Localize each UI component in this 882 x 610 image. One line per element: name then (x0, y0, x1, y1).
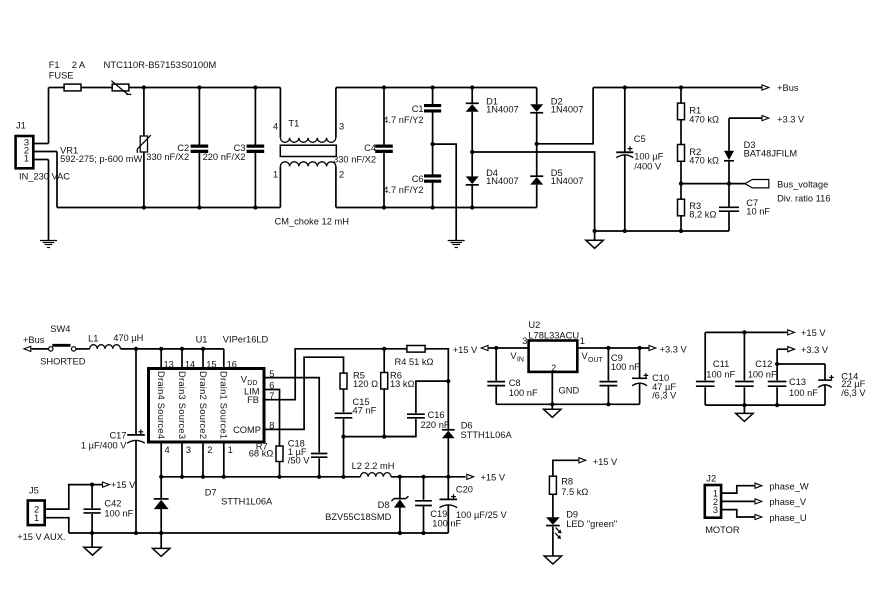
svg-text:L78L33ACU: L78L33ACU (528, 330, 579, 340)
svg-text:+Bus: +Bus (777, 83, 799, 93)
svg-text:4: 4 (165, 445, 170, 455)
svg-text:3: 3 (713, 505, 718, 515)
svg-text:100 µF/25 V: 100 µF/25 V (456, 510, 508, 520)
svg-text:C6: C6 (412, 174, 424, 184)
svg-text:13: 13 (164, 360, 174, 370)
svg-text:MOTOR: MOTOR (705, 525, 740, 535)
svg-text:+15 V: +15 V (481, 473, 506, 483)
svg-text:D7: D7 (205, 487, 217, 497)
svg-text:10 nF: 10 nF (746, 207, 770, 217)
svg-text:1: 1 (228, 445, 233, 455)
svg-text:100 nF: 100 nF (432, 519, 461, 529)
svg-text:/6,3 V: /6,3 V (652, 391, 677, 401)
svg-text:J1: J1 (16, 121, 26, 131)
svg-text:D8: D8 (378, 500, 390, 510)
svg-text:R4 51 kΩ: R4 51 kΩ (395, 357, 434, 367)
svg-text:1N4007: 1N4007 (551, 105, 584, 115)
svg-text:D9: D9 (566, 509, 578, 519)
svg-text:+Bus: +Bus (23, 335, 45, 345)
svg-text:2 A: 2 A (72, 60, 86, 70)
svg-text:OUT: OUT (588, 357, 604, 364)
svg-text:3: 3 (522, 336, 527, 346)
svg-text:100 nF: 100 nF (611, 362, 640, 372)
svg-text:U2: U2 (528, 320, 540, 330)
svg-text:IN_230 VAC: IN_230 VAC (19, 172, 70, 182)
svg-text:/50 V: /50 V (288, 456, 311, 466)
svg-text:330 nF/X2: 330 nF/X2 (333, 155, 376, 165)
svg-text:100 nF: 100 nF (706, 369, 735, 379)
svg-text:C11: C11 (713, 359, 729, 369)
svg-text:FUSE: FUSE (49, 71, 74, 81)
svg-text:C1: C1 (412, 104, 424, 114)
svg-text:CM_choke 12 mH: CM_choke 12 mH (275, 216, 349, 226)
svg-text:8,2 kΩ: 8,2 kΩ (689, 210, 716, 220)
svg-text:3: 3 (186, 445, 191, 455)
svg-text:Drain2 Source2: Drain2 Source2 (198, 371, 208, 439)
svg-text:1: 1 (273, 170, 278, 180)
svg-text:4.7 nF/Y2: 4.7 nF/Y2 (383, 115, 423, 125)
svg-text:C16: C16 (428, 410, 445, 420)
svg-text:13 kΩ: 13 kΩ (390, 379, 415, 389)
svg-text:LED "green": LED "green" (566, 519, 617, 529)
svg-text:+15 V: +15 V (453, 345, 478, 355)
svg-text:1N4007: 1N4007 (551, 176, 584, 186)
svg-text:47 nF: 47 nF (353, 405, 377, 415)
svg-text:330 nF/X2: 330 nF/X2 (146, 152, 189, 162)
svg-text:C12: C12 (755, 359, 772, 369)
svg-text:IN: IN (517, 356, 524, 363)
svg-text:J5: J5 (29, 485, 39, 495)
svg-text:SHORTED: SHORTED (40, 357, 86, 367)
svg-text:R8: R8 (561, 477, 573, 487)
svg-text:C17: C17 (109, 430, 126, 440)
svg-text:14: 14 (185, 360, 195, 370)
svg-text:220 nF/X2: 220 nF/X2 (203, 152, 246, 162)
svg-text:470 µH: 470 µH (113, 333, 143, 343)
svg-text:COMP: COMP (233, 425, 261, 435)
svg-text:100 nF: 100 nF (748, 369, 777, 379)
svg-text:GND: GND (559, 386, 580, 396)
svg-text:phase_U: phase_U (769, 513, 806, 523)
svg-text:2: 2 (551, 363, 556, 373)
svg-text:100 nF: 100 nF (104, 508, 133, 518)
svg-text:C42: C42 (104, 499, 121, 509)
svg-text:2: 2 (207, 445, 212, 455)
svg-text:F1: F1 (49, 60, 60, 70)
svg-text:L2 2.2 mH: L2 2.2 mH (352, 461, 395, 471)
svg-text:Drain1 Source1: Drain1 Source1 (219, 371, 229, 439)
svg-text:+3.3 V: +3.3 V (801, 345, 829, 355)
svg-text:15: 15 (206, 360, 216, 370)
svg-text:C5: C5 (634, 134, 646, 144)
svg-text:120 Ω: 120 Ω (353, 379, 378, 389)
svg-text:4.7 nF/Y2: 4.7 nF/Y2 (383, 185, 423, 195)
svg-text:Drain4 Source4: Drain4 Source4 (156, 371, 166, 439)
svg-text:100 µF: 100 µF (634, 151, 663, 161)
svg-text:1: 1 (580, 336, 585, 346)
svg-text:+15 V: +15 V (111, 480, 136, 490)
svg-text:/6,3 V: /6,3 V (841, 388, 866, 398)
svg-text:1: 1 (34, 513, 39, 523)
svg-text:220 nF: 220 nF (421, 420, 450, 430)
svg-text:BZV55C18SMD: BZV55C18SMD (325, 512, 391, 522)
svg-text:T1: T1 (288, 119, 299, 129)
svg-text:FB: FB (247, 395, 259, 405)
svg-text:C19: C19 (430, 509, 447, 519)
svg-text:100 nF: 100 nF (789, 388, 818, 398)
svg-text:100 nF: 100 nF (509, 388, 538, 398)
svg-text:BAT48JFILM: BAT48JFILM (744, 149, 798, 159)
svg-text:+15 V: +15 V (593, 457, 618, 467)
svg-text:+15 V: +15 V (801, 328, 826, 338)
svg-text:C20: C20 (456, 484, 473, 494)
svg-text:+3.3 V: +3.3 V (777, 114, 805, 124)
svg-text:1: 1 (24, 153, 29, 163)
svg-text:STTH1L06A: STTH1L06A (221, 497, 273, 507)
svg-text:7.5 kΩ: 7.5 kΩ (561, 487, 588, 497)
svg-text:NTC110R-B57153S0100M: NTC110R-B57153S0100M (104, 60, 217, 71)
svg-text:1 µF/400 V: 1 µF/400 V (81, 440, 127, 450)
svg-text:STTH1L06A: STTH1L06A (461, 430, 513, 440)
svg-text:470 kΩ: 470 kΩ (689, 156, 719, 166)
svg-text:phase_V: phase_V (769, 497, 807, 507)
svg-text:4: 4 (273, 122, 278, 132)
svg-text:phase_W: phase_W (769, 481, 809, 491)
svg-text:J2: J2 (706, 474, 716, 484)
svg-text:C4: C4 (364, 143, 376, 153)
svg-text:VIPer16LD: VIPer16LD (223, 335, 269, 345)
svg-text:C8: C8 (509, 378, 521, 388)
svg-text:Div. ratio 116: Div. ratio 116 (777, 193, 830, 203)
svg-text:16: 16 (227, 360, 237, 370)
svg-text:SW4: SW4 (50, 324, 70, 334)
svg-text:2: 2 (339, 170, 344, 180)
svg-text:470 kΩ: 470 kΩ (689, 115, 719, 125)
svg-text:1N4007: 1N4007 (486, 176, 519, 186)
svg-text:/400 V: /400 V (634, 162, 662, 172)
svg-text:1N4007: 1N4007 (486, 105, 519, 115)
svg-text:3: 3 (339, 122, 344, 132)
svg-text:L1: L1 (88, 334, 98, 344)
svg-text:Drain3 Source3: Drain3 Source3 (177, 371, 187, 439)
svg-text:68 kΩ: 68 kΩ (249, 449, 274, 459)
svg-text:+15 V AUX.: +15 V AUX. (17, 532, 65, 542)
svg-text:U1: U1 (196, 335, 208, 345)
svg-text:C13: C13 (789, 377, 806, 387)
svg-text:592-275; p-600 mW: 592-275; p-600 mW (60, 154, 142, 164)
svg-text:+3.3 V: +3.3 V (660, 344, 688, 354)
svg-text:Bus_voltage: Bus_voltage (777, 179, 828, 189)
